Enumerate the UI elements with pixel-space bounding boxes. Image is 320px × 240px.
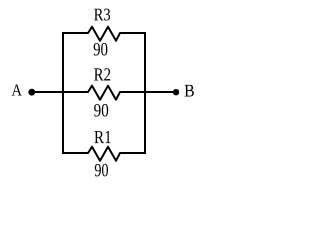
wire: bottom branch left segment bbox=[62, 152, 88, 154]
node A label bbox=[12, 85, 22, 96]
wire: middle branch from right bus to node B bbox=[144, 91, 176, 93]
wire: top branch left segment bbox=[62, 32, 88, 34]
resistor R1 zigzag bbox=[88, 147, 120, 161]
node B junction dot bbox=[173, 89, 179, 95]
value 90 (R1) bbox=[95, 164, 108, 177]
node A junction dot bbox=[28, 89, 35, 96]
wire: middle branch right segment (R2 to right bus) bbox=[120, 91, 146, 93]
wire: middle branch from node A to left bus bbox=[31, 91, 63, 93]
label R2 bbox=[94, 68, 110, 80]
value 90 (R2) bbox=[94, 104, 108, 117]
wire: right vertical bus bbox=[144, 32, 146, 154]
resistor R2 zigzag bbox=[88, 86, 120, 100]
wire: middle branch left segment (left bus to R2) bbox=[62, 91, 88, 93]
node B label bbox=[185, 85, 194, 97]
wire: left vertical bus bbox=[62, 32, 64, 154]
wire: top branch right segment bbox=[120, 32, 146, 34]
resistor R3 zigzag bbox=[88, 27, 120, 41]
value 90 (R3) bbox=[94, 43, 108, 56]
label R3 bbox=[94, 9, 110, 21]
wire: bottom branch right segment bbox=[120, 152, 146, 154]
label R1 bbox=[94, 131, 110, 143]
